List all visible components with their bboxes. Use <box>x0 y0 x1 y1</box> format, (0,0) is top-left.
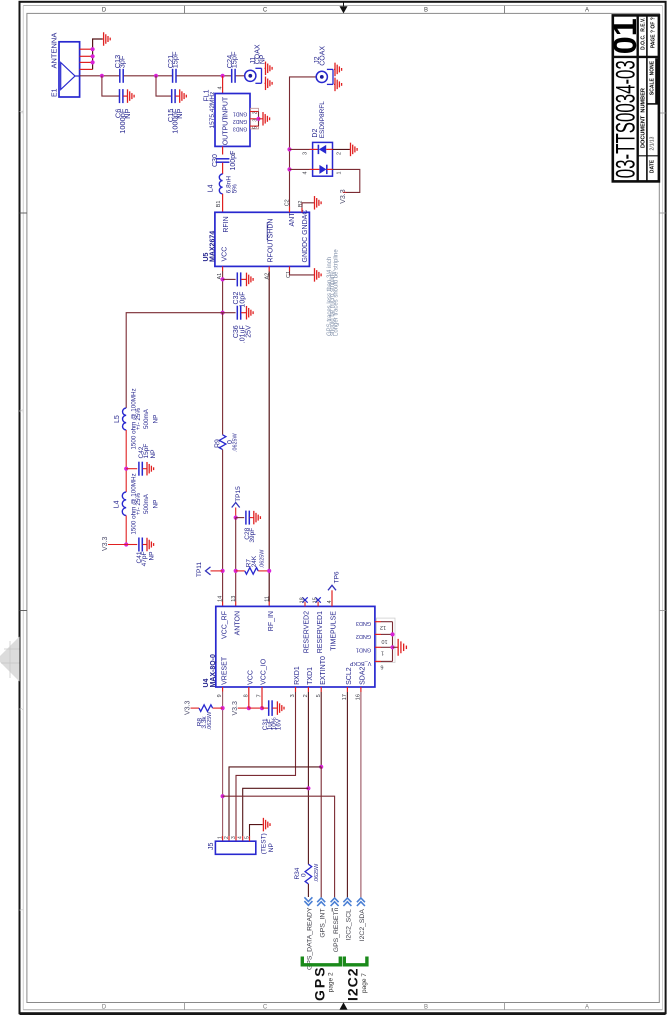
svg-text:DATE: DATE <box>650 159 656 173</box>
wire EXTINT0 to J5 pin 2 <box>229 767 321 836</box>
node antenna gnd junction 2 <box>91 54 95 58</box>
node ANT D2 junction 2 <box>287 167 291 171</box>
svg-text:NP: NP <box>150 449 157 458</box>
svg-text:NP: NP <box>153 415 160 424</box>
wire U4 gnd stubs <box>375 621 381 623</box>
zone ticks top edge <box>184 6 186 14</box>
node RF junction C15 <box>154 74 158 78</box>
svg-text:VCC_IO: VCC_IO <box>261 658 268 685</box>
svg-text:L4: L4 <box>207 184 214 192</box>
svg-text:page 7: page 7 <box>361 973 368 993</box>
svg-text:6: 6 <box>380 664 383 670</box>
svg-text:SCL2: SCL2 <box>346 667 353 685</box>
no-connect X RESERVED2 pin 18 <box>304 602 306 607</box>
no-connect X RESERVED1 pin 15 <box>317 602 319 607</box>
svg-text:RESERVED1: RESERVED1 <box>317 611 324 653</box>
svg-text:MAX2674: MAX2674 <box>209 231 216 262</box>
svg-text:47pF: 47pF <box>141 551 148 566</box>
off-page arrow GPS_INT <box>317 898 325 902</box>
antenna E1 <box>59 42 80 97</box>
ground D2 pin 2 <box>350 148 351 150</box>
svg-text:25V: 25V <box>245 325 252 338</box>
svg-text:PAGE ? OF ?: PAGE ? OF ? <box>651 17 657 48</box>
svg-text:RFIN: RFIN <box>223 216 230 232</box>
wire gnd rail to ground <box>393 646 397 648</box>
svg-text:A: A <box>585 1004 589 1010</box>
svg-text:J5: J5 <box>208 843 215 851</box>
svg-text:4: 4 <box>303 171 309 174</box>
ground U4 <box>397 646 398 648</box>
wire TXD1 net <box>307 687 309 692</box>
svg-text:V3.3: V3.3 <box>102 536 109 551</box>
wire C32 branch <box>223 278 236 280</box>
wire L4 to U5 RFIN <box>222 194 224 213</box>
svg-text:2: 2 <box>337 152 343 155</box>
svg-text:NP: NP <box>123 109 132 119</box>
resistor R9 <box>219 435 226 450</box>
ground C6 <box>127 95 128 97</box>
svg-text:12: 12 <box>380 624 386 630</box>
U4 gnd cluster outline <box>376 618 395 662</box>
resistor R34 <box>305 864 312 884</box>
capacitor C15 <box>171 89 173 103</box>
node R7 junction RF_IN <box>267 569 271 573</box>
svg-text:15: 15 <box>313 597 319 603</box>
inductor L4 <box>219 174 222 194</box>
svg-text:2: 2 <box>253 111 259 114</box>
capacitor C13 <box>119 69 121 83</box>
svg-text:TP15: TP15 <box>235 486 242 502</box>
wire antenna ground stubs <box>80 48 93 50</box>
wire U5 RFOUT to U4 RF_IN <box>268 266 270 271</box>
svg-text:GPS_INT: GPS_INT <box>320 909 327 938</box>
wire U5 VCC stub <box>222 266 224 271</box>
node antenna gnd junction 1 <box>91 47 95 51</box>
wire VCC net down <box>222 271 224 313</box>
ground C36 <box>246 312 247 314</box>
svg-text:3: 3 <box>253 119 259 122</box>
svg-text:GND3: GND3 <box>233 125 248 131</box>
node RF junction C6 <box>100 74 104 78</box>
svg-text:3: 3 <box>20 409 26 412</box>
capacitor C21 <box>172 69 174 83</box>
svg-text:1: 1 <box>20 908 26 911</box>
svg-text:GND2: GND2 <box>356 633 371 639</box>
wire C36 branch <box>223 312 236 314</box>
svg-text:TP6: TP6 <box>333 571 340 583</box>
svg-text:39pF: 39pF <box>249 528 256 543</box>
wire VCC_RF down <box>222 313 224 435</box>
svg-text:24K: 24K <box>251 555 258 567</box>
node C42 junction <box>124 467 128 471</box>
node VCC junction <box>247 706 251 710</box>
svg-text:A: A <box>585 7 589 13</box>
wire R7 right stub <box>258 570 269 572</box>
resistor R8 <box>199 705 213 712</box>
svg-text:.0625W: .0625W <box>260 549 266 568</box>
wire V3.3 rail VCC <box>238 707 249 709</box>
svg-text:.0625W: .0625W <box>207 711 213 730</box>
capacitor C36 <box>236 306 238 320</box>
wire C42 branch <box>126 468 137 470</box>
svg-text:ESD9P8RFL: ESD9P8RFL <box>319 101 326 139</box>
svg-text:.0625W: .0625W <box>314 863 320 882</box>
bottom border emphasis <box>20 1013 666 1015</box>
zone ticks left edge <box>20 212 27 214</box>
testpoint TP6 <box>328 585 336 590</box>
svg-text:11: 11 <box>264 596 270 602</box>
svg-text:E1: E1 <box>52 88 59 97</box>
GPS module U4 MAX-8Q-0 <box>216 606 375 687</box>
wire R9 to pin 14 <box>222 450 224 602</box>
svg-text:GPS_RESETn: GPS_RESETn <box>333 907 340 952</box>
wire C28 branch <box>236 517 245 519</box>
svg-text:B: B <box>424 7 428 13</box>
wire TP15 to C28 node <box>235 508 237 518</box>
off-page arrow GPS_DATA_READY <box>304 897 312 901</box>
svg-text:C30: C30 <box>212 154 219 167</box>
capacitor C31 <box>268 700 270 716</box>
svg-text:+/- 25%: +/- 25% <box>135 408 142 430</box>
svg-text:13: 13 <box>231 596 237 602</box>
svg-text:VCC: VCC <box>222 247 229 262</box>
svg-text:V_BCKP: V_BCKP <box>349 660 371 666</box>
node C28 junction <box>234 516 238 520</box>
wire SCL2 net <box>346 687 348 692</box>
svg-text:500mA: 500mA <box>143 493 150 514</box>
svg-text:EXTINT0: EXTINT0 <box>320 656 327 685</box>
capacitor C32 <box>236 272 238 286</box>
wire C41 branch <box>126 544 137 546</box>
node TXD1 J5 junction <box>306 786 310 790</box>
wire L5 to L4 node <box>125 430 127 492</box>
off-page arrow I2C2_SCL <box>343 898 351 902</box>
ground J2 shield bottom <box>334 83 335 85</box>
off-page arrow GPS_RESETn <box>331 898 339 902</box>
svg-text:+/- 25%: +/- 25% <box>135 493 142 515</box>
wire RXD1 net <box>295 687 297 692</box>
ground J1 shield bottom <box>265 82 266 84</box>
svg-text:RXD1: RXD1 <box>294 666 301 685</box>
svg-text:500mA: 500mA <box>143 408 150 429</box>
svg-text:GND2: GND2 <box>233 118 248 124</box>
diode D2 top (points left) <box>290 148 310 150</box>
svg-text:2/1/13: 2/1/13 <box>650 136 656 150</box>
wire TIMEPULSE stub <box>331 590 333 606</box>
ground C42 <box>146 468 147 470</box>
svg-text:15pF: 15pF <box>230 51 239 68</box>
wire U5 ANT net <box>289 207 291 213</box>
svg-text:TXD1: TXD1 <box>307 667 314 685</box>
inductor L5 <box>123 408 127 430</box>
svg-text:16V: 16V <box>275 718 282 730</box>
bracket GPS <box>302 957 340 965</box>
wire VCC_IO pin stub <box>261 687 263 708</box>
resistor R7 <box>245 568 258 575</box>
svg-text:GND3: GND3 <box>356 620 371 626</box>
svg-text:GND1: GND1 <box>233 111 248 117</box>
svg-text:2: 2 <box>20 707 26 710</box>
wire FL1 gnd stubs <box>250 111 259 113</box>
node antenna gnd junction 3 <box>91 60 95 64</box>
ground FL1 <box>262 118 263 120</box>
node FL1 gnd junction <box>256 117 260 121</box>
wire R7 left stub <box>236 570 245 572</box>
svg-text:10pF: 10pF <box>239 292 246 308</box>
wire C6 branch <box>102 76 119 96</box>
wire L4 to V3.3 node <box>125 516 127 545</box>
net label V3.3 feed <box>108 544 126 546</box>
ground J5 pin 5 <box>262 824 263 826</box>
capacitor C6 <box>119 89 121 103</box>
svg-text:SDA2: SDA2 <box>360 667 367 685</box>
svg-text:page 2: page 2 <box>328 972 335 992</box>
svg-text:B1: B1 <box>216 201 222 208</box>
fold mark diamond left margin <box>0 637 20 682</box>
svg-text:GPS_DATA_READY: GPS_DATA_READY <box>307 907 314 970</box>
ground C41 <box>146 544 147 546</box>
ground J2 shield top <box>334 68 335 70</box>
svg-text:OUTPUT: OUTPUT <box>222 116 229 146</box>
svg-text:3: 3 <box>303 152 309 155</box>
svg-text:D: D <box>102 7 107 13</box>
svg-text:L5: L5 <box>114 415 121 423</box>
svg-text:100pF: 100pF <box>230 151 237 171</box>
svg-text:GND1: GND1 <box>356 647 371 653</box>
svg-text:D: D <box>102 1004 107 1010</box>
svg-text:RESERVED2: RESERVED2 <box>304 611 311 653</box>
wire GPS_RESETn net <box>223 796 335 897</box>
wire EXTINT0 to GPS_INT <box>320 767 322 898</box>
node R8 junction <box>221 706 225 710</box>
svg-text:ANT: ANT <box>289 212 296 227</box>
capacitor C30 <box>216 158 230 160</box>
svg-text:VCC: VCC <box>248 670 255 685</box>
svg-text:INPUT: INPUT <box>222 96 229 118</box>
wire U5 B2 gnd <box>301 208 303 212</box>
svg-text:NP: NP <box>148 552 155 561</box>
svg-text:RFOUTSHDN: RFOUTSHDN <box>267 219 274 263</box>
wire VCC to L5 chain <box>126 313 222 408</box>
connector J1 COAX <box>245 70 256 81</box>
ground J1 shield top <box>265 67 266 69</box>
wire TXD1 to J5 pin 4 <box>243 788 309 836</box>
capacitor C24 <box>231 69 233 83</box>
wire U4 gnd rail <box>392 622 394 662</box>
node TP11 junction <box>221 569 225 573</box>
node gnd rail junction 1 <box>390 632 394 636</box>
svg-text:R9: R9 <box>215 439 222 448</box>
svg-text:RF_IN: RF_IN <box>268 611 275 631</box>
testpoint TP15 <box>232 503 240 508</box>
svg-text:B: B <box>424 1004 428 1010</box>
connector J5 <box>215 841 255 854</box>
ESD diode D2 ESD9P8RFL <box>313 142 333 176</box>
svg-text:3pF: 3pF <box>118 55 127 68</box>
wire antenna ground bus <box>93 39 103 69</box>
wire R8 to VRESET <box>213 707 223 709</box>
node VCC C36 junction <box>221 311 225 315</box>
wire R34 to GPS_DATA_READY <box>307 884 309 897</box>
ground C15 <box>179 95 180 97</box>
wire C15 branch <box>156 76 171 96</box>
center arrow top edge <box>340 6 348 13</box>
node gnd rail junction 2 <box>390 645 394 649</box>
ground C28 <box>253 517 254 519</box>
connector J2 COAX <box>316 71 327 82</box>
svg-text:01: 01 <box>607 18 643 54</box>
svg-text:MAX-8Q-0: MAX-8Q-0 <box>210 654 217 688</box>
svg-text:V3.3: V3.3 <box>340 189 347 204</box>
svg-text:TP11: TP11 <box>196 562 203 577</box>
diode D2 bottom (points right) <box>290 168 310 170</box>
svg-text:14: 14 <box>218 596 224 602</box>
node ANT D2 junction 1 <box>287 147 291 151</box>
svg-text:NP: NP <box>268 843 275 852</box>
svg-text:3: 3 <box>231 836 237 839</box>
svg-text:DOCUMENT NUMBER: DOCUMENT NUMBER <box>641 88 647 148</box>
SAW filter FL1 <box>215 94 250 147</box>
svg-text:.0625W: .0625W <box>232 433 238 452</box>
svg-text:D.O.C. R.E.V.: D.O.C. R.E.V. <box>641 17 647 50</box>
svg-text:5: 5 <box>253 126 259 129</box>
capacitor C41 <box>138 538 140 552</box>
svg-text:I2C2: I2C2 <box>345 967 361 1001</box>
node GPS_RESETn junction <box>221 794 225 798</box>
svg-text:L4: L4 <box>114 500 121 508</box>
svg-text:TIMEPULSE: TIMEPULSE <box>331 611 338 651</box>
svg-text:(TEST): (TEST) <box>261 833 268 854</box>
wire U5 C1 gnd <box>289 266 291 271</box>
wire FL1 input stub <box>222 76 224 94</box>
wire ANTON down <box>235 518 237 602</box>
svg-text:10: 10 <box>381 638 387 644</box>
svg-text:SCALE NONE: SCALE NONE <box>650 60 656 95</box>
svg-text:18: 18 <box>300 597 306 603</box>
svg-text:GNDDC GNDAC: GNDDC GNDAC <box>302 210 309 263</box>
svg-text:2: 2 <box>224 836 230 839</box>
svg-text:5%: 5% <box>231 184 238 194</box>
svg-text:4: 4 <box>327 600 333 603</box>
title block <box>613 15 659 181</box>
ground U5 B2 <box>314 202 315 204</box>
wire V3.3 to R8 <box>191 707 200 709</box>
capacitor C28 <box>245 511 247 525</box>
inductor L4 ferrite <box>122 492 126 516</box>
svg-text:0: 0 <box>301 873 308 877</box>
testpoint TP11 <box>206 567 211 575</box>
FL1 gnd pin box <box>250 108 258 129</box>
bracket I2C2 <box>344 957 367 965</box>
svg-text:1575.42MHz: 1575.42MHz <box>209 92 216 129</box>
LNA U5 MAX2674 <box>215 212 310 266</box>
svg-text:I2C2_SCL: I2C2_SCL <box>346 909 353 941</box>
zone ticks bottom edge <box>184 1003 186 1011</box>
off-page arrow I2C2_SDA <box>357 898 365 902</box>
node RF junction FL1 <box>221 74 225 78</box>
node VCC C32 junction <box>221 277 225 281</box>
center arrow bottom edge <box>340 1002 348 1009</box>
wire TP11 stub <box>211 570 223 572</box>
wire J5 pin5 gnd <box>249 836 251 841</box>
svg-text:B2: B2 <box>298 201 304 208</box>
ground U5 C1 <box>314 274 315 276</box>
svg-text:15pF: 15pF <box>170 51 179 68</box>
svg-text:4: 4 <box>217 86 223 89</box>
node C41 junction <box>124 542 128 546</box>
svg-text:COAX: COAX <box>319 46 326 66</box>
svg-text:1: 1 <box>218 836 224 839</box>
svg-text:Longer traces should be stripl: Longer traces should be stripline <box>334 249 340 336</box>
svg-text:ANTENNA: ANTENNA <box>50 33 59 69</box>
svg-text:NP: NP <box>175 109 184 119</box>
wire D2 pin1 to V3.3 <box>333 169 360 192</box>
svg-text:C: C <box>263 7 268 13</box>
wire SDA2 net <box>360 687 362 692</box>
svg-text:VCC_RF: VCC_RF <box>221 611 228 639</box>
svg-text:03-TTS0034-03: 03-TTS0034-03 <box>611 60 641 178</box>
ground C31 <box>276 707 277 709</box>
svg-text:1: 1 <box>381 649 384 655</box>
wire VRESET net <box>222 687 224 692</box>
svg-text:NP: NP <box>153 500 160 509</box>
svg-text:GPS: GPS <box>312 965 328 1001</box>
wire VCC pin stub <box>248 687 250 708</box>
wire FL1 output stub <box>222 146 224 154</box>
svg-text:15pF: 15pF <box>143 444 150 459</box>
ground C32 <box>246 278 247 280</box>
svg-text:4: 4 <box>20 110 26 113</box>
svg-text:4: 4 <box>238 836 244 839</box>
node VCC_IO junction <box>260 706 264 710</box>
capacitor C42 <box>138 462 140 476</box>
node R7 junction ANTON <box>234 569 238 573</box>
svg-text:ANTON: ANTON <box>235 611 242 635</box>
wire RF net antenna to J1 <box>80 75 120 77</box>
svg-text:I2C2_SDA: I2C2_SDA <box>359 909 366 942</box>
svg-text:C: C <box>263 1004 268 1010</box>
svg-text:VRESET: VRESET <box>221 656 228 685</box>
node EXTINT0 J5 junction <box>319 765 323 769</box>
wire EXTINT0 net <box>320 687 322 692</box>
zone ticks right edge <box>659 112 665 114</box>
svg-text:1: 1 <box>337 171 343 174</box>
ground antenna <box>103 38 104 40</box>
